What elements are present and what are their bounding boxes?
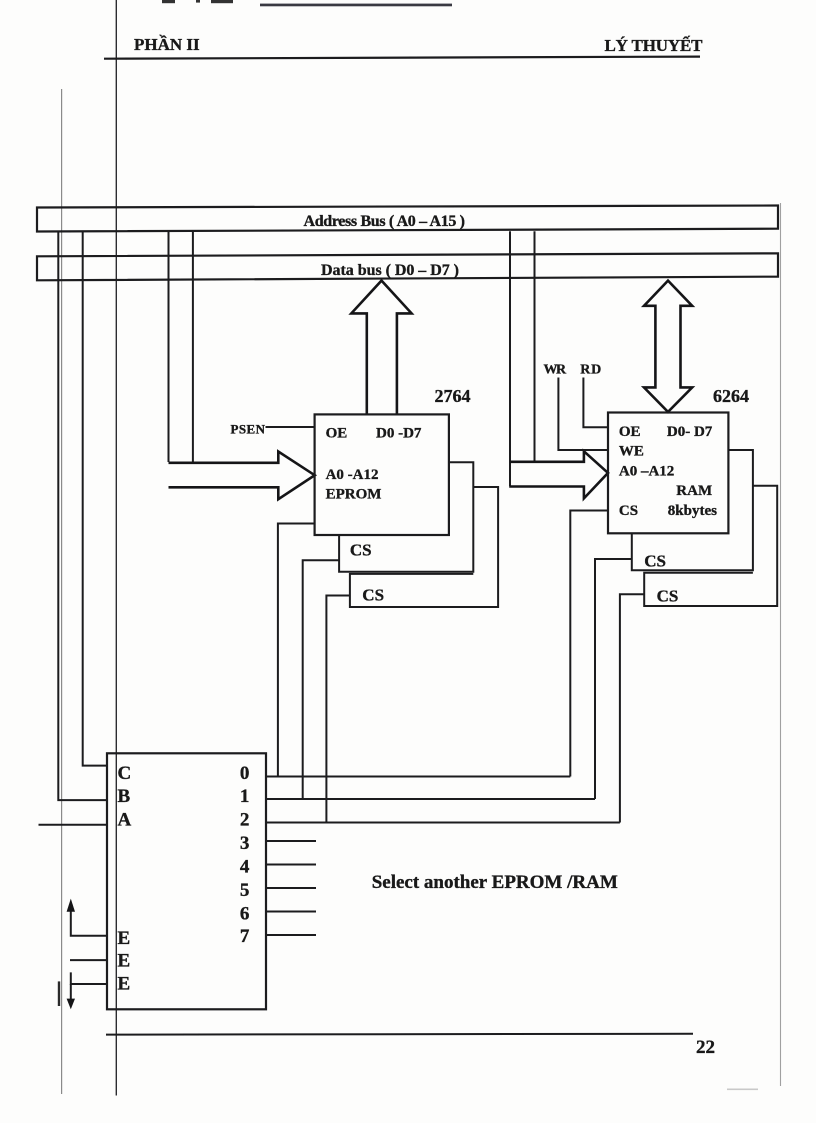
data bus double-arrow to RAM xyxy=(644,281,692,412)
E1 up arrowhead xyxy=(67,899,75,912)
svg-text:Data bus ( D0 – D7 ): Data bus ( D0 – D7 ) xyxy=(321,262,459,279)
wire A address line into decoder A input xyxy=(39,824,108,826)
svg-text:LÝ THUYẾT: LÝ THUYẾT xyxy=(605,36,704,55)
wire A-line to decoder C input xyxy=(83,231,108,765)
wire decoder output 2 to EPROM CS2 xyxy=(326,596,350,823)
svg-text:CS: CS xyxy=(619,503,638,519)
decoder output 4 stub xyxy=(266,864,316,866)
E3 down-arrow stem xyxy=(70,984,72,1000)
left margin rule (grey) xyxy=(61,89,63,1094)
svg-text:D0- D7: D0- D7 xyxy=(667,424,713,440)
wire address bus to EPROM arrow (inner) xyxy=(192,231,194,462)
wire E1 enable with up-arrow xyxy=(71,911,107,936)
decoder output 3 stub xyxy=(266,840,316,842)
svg-text:E: E xyxy=(118,974,131,995)
EPROM CS select box 1 xyxy=(339,462,473,572)
wire decoder output 0 net xyxy=(266,776,570,778)
svg-text:CS: CS xyxy=(362,586,384,605)
svg-text:OE: OE xyxy=(326,426,348,442)
RAM CS select box 2 xyxy=(644,486,777,606)
svg-text:2764: 2764 xyxy=(435,386,471,406)
svg-text:PSEN: PSEN xyxy=(231,422,266,437)
svg-text:D0 -D7: D0 -D7 xyxy=(376,426,422,442)
svg-text:WR: WR xyxy=(544,362,567,377)
footer rule xyxy=(106,1033,693,1036)
wire address bus to EPROM arrow (outer) xyxy=(168,231,170,462)
svg-text:8kbytes: 8kbytes xyxy=(668,503,717,519)
svg-text:E: E xyxy=(118,928,131,949)
wire decoder output 1 to EPROM CS1 xyxy=(303,560,339,799)
svg-text:RD: RD xyxy=(580,362,601,377)
svg-text:RAM: RAM xyxy=(676,483,712,499)
wire decoder output 0 to RAM CS pin xyxy=(570,511,608,777)
bus arrow into EPROM A0-A12 xyxy=(169,452,315,500)
svg-text:A0 –A12: A0 –A12 xyxy=(619,463,674,479)
svg-text:C: C xyxy=(118,763,132,784)
decoder output 7 stub xyxy=(266,934,316,936)
left margin rule (dark) xyxy=(115,0,117,1096)
decoder U3 box xyxy=(107,753,266,1009)
decoder output 5 stub xyxy=(266,887,316,889)
address bus bar xyxy=(37,206,778,232)
svg-text:EPROM: EPROM xyxy=(326,487,382,503)
wire A-line to decoder B input xyxy=(58,231,107,800)
svg-text:CS: CS xyxy=(644,552,666,571)
svg-text:4: 4 xyxy=(240,857,250,878)
svg-text:1: 1 xyxy=(240,786,250,807)
svg-text:22: 22 xyxy=(696,1037,715,1058)
svg-text:5: 5 xyxy=(240,880,250,901)
bus arrow into RAM A0-A12 xyxy=(509,451,608,498)
svg-text:Address Bus ( A0 – A15 ): Address Bus ( A0 – A15 ) xyxy=(304,213,466,230)
stray ink mark near E3 xyxy=(58,981,60,1006)
svg-text:6264: 6264 xyxy=(713,386,749,406)
RAM U2 box (6264) xyxy=(608,413,728,534)
wire decoder output 2 net xyxy=(266,822,620,824)
wire address bus to RAM arrow (outer) xyxy=(509,231,511,486)
wire decoder output 1 to RAM CS1 xyxy=(595,559,632,799)
wire decoder output 2 to RAM CS2 xyxy=(620,594,644,822)
cut-off text fragment top-left xyxy=(162,0,233,3)
wire RD to RAM OE xyxy=(583,378,608,428)
RAM CS select box 1 xyxy=(632,450,753,570)
wire E3 enable with down-arrow xyxy=(71,972,107,984)
header rule xyxy=(104,57,700,59)
svg-text:3: 3 xyxy=(240,833,250,854)
cut-off underline top xyxy=(260,4,452,7)
wire address bus to RAM arrow (inner) xyxy=(534,231,536,461)
wire decoder output 0 to EPROM CS (left pin) xyxy=(278,524,315,777)
svg-text:0: 0 xyxy=(240,763,250,784)
svg-text:Select another EPROM /RAM: Select another EPROM /RAM xyxy=(372,872,618,893)
svg-text:A0 -A12: A0 -A12 xyxy=(326,467,379,483)
wire E2 enable stub xyxy=(70,959,107,961)
svg-text:E: E xyxy=(118,951,131,972)
wire decoder output 1 net xyxy=(266,798,595,800)
svg-text:CS: CS xyxy=(657,587,679,606)
svg-text:OE: OE xyxy=(619,424,641,440)
svg-text:CS: CS xyxy=(350,541,372,560)
svg-text:WE: WE xyxy=(619,444,644,460)
EPROM CS select box 2 xyxy=(350,487,498,607)
faint dash bottom right xyxy=(727,1089,758,1091)
wire WR to RAM WE xyxy=(558,378,608,451)
svg-text:A: A xyxy=(118,809,132,830)
wire PSEN to EPROM OE xyxy=(266,426,315,428)
EPROM U1 box (2764) xyxy=(315,414,449,535)
data bus bar xyxy=(37,253,778,280)
E3 down arrowhead xyxy=(67,999,75,1010)
svg-text:B: B xyxy=(118,786,131,807)
svg-text:6: 6 xyxy=(240,904,250,925)
right margin rule (grey) xyxy=(780,203,782,1086)
svg-text:PHẦN II: PHẦN II xyxy=(134,35,200,54)
svg-text:2: 2 xyxy=(240,809,250,830)
svg-text:7: 7 xyxy=(240,926,250,947)
decoder output 6 stub xyxy=(266,911,316,913)
data bus up-arrow from EPROM xyxy=(351,281,411,415)
